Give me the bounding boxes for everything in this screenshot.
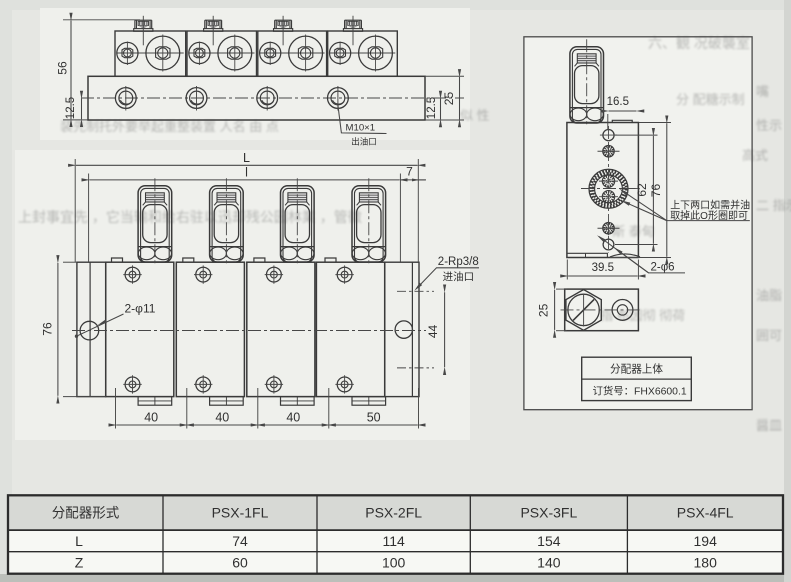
grease fitting 2 (top view) (204, 20, 206, 28)
svg-text:16.5: 16.5 (607, 96, 629, 108)
front block 3 (247, 262, 315, 396)
dimension 76 (side) (639, 122, 671, 124)
foot 2 (210, 397, 244, 406)
tie-rod screw top 1 (125, 267, 140, 282)
plate extension lines right (425, 75, 464, 77)
svg-text:44: 44 (426, 325, 440, 339)
block 4 large piston circle (359, 36, 393, 70)
top boss (612, 120, 632, 122)
grease fitting 3 (top view) (274, 20, 276, 28)
foot 4 (352, 397, 386, 406)
tie-rod screw bottom 2 (196, 377, 211, 392)
svg-text:100: 100 (382, 554, 406, 570)
cycle indicator 2 (210, 178, 244, 263)
inlet port centre lines right (397, 290, 434, 292)
outlet hole 1 on plate (115, 88, 136, 109)
big O-ring knurled circle (589, 169, 628, 208)
svg-text:进油口: 进油口 (443, 270, 475, 283)
svg-text:39.5: 39.5 (592, 262, 614, 274)
side view group (567, 39, 750, 279)
svg-text:7: 7 (406, 164, 413, 178)
tie-rod screw top 2 (196, 267, 211, 282)
svg-text:醤皿: 醤皿 (756, 418, 782, 433)
svg-text:114: 114 (382, 533, 405, 549)
svg-text:囲可: 囲可 (756, 328, 782, 343)
svg-text:似 性: 似 性 (460, 108, 490, 123)
top view valve block 1 (115, 31, 186, 76)
svg-text:56: 56 (56, 61, 70, 75)
right end plate (385, 262, 419, 396)
dimension 7 (400, 179, 426, 181)
outlet hole 2 on plate (186, 88, 207, 109)
bottom pitch dimensions 40 40 40 50 (115, 388, 117, 429)
dimension 76 (front) (63, 261, 77, 263)
note leaders to O-ring ports (622, 190, 667, 220)
outlet hole 4 on plate (328, 88, 349, 109)
base plate (88, 76, 425, 120)
outlet hole 3 on plate (257, 88, 278, 109)
fitting 4 flange (343, 29, 362, 32)
svg-text:分 配糖示制: 分 配糖示制 (676, 92, 745, 107)
front block 2 (176, 262, 244, 396)
block 1 small bolt circle (117, 42, 138, 63)
side indicator (570, 39, 604, 124)
side port circle top (phi6) (603, 130, 614, 141)
svg-text:装先制托外要举起重整装置 人名 由 点: 装先制托外要举起重整装置 人名 由 点 (60, 119, 279, 134)
dimension l (88, 174, 90, 263)
table grid (8, 495, 783, 573)
O-ring inner port upper (602, 175, 614, 187)
front view group (40, 151, 479, 429)
tie-rod screw top 4 (337, 267, 352, 282)
svg-text:74: 74 (232, 533, 248, 549)
svg-text:取掉此O形圈即可: 取掉此O形圈即可 (670, 209, 748, 222)
svg-text:高式: 高式 (742, 148, 768, 163)
dimension 44 (444, 292, 446, 367)
side vertical centre line (608, 126, 610, 253)
bottom view side hole (612, 300, 633, 321)
svg-text:出油口: 出油口 (351, 137, 377, 147)
dimension L (74, 159, 76, 262)
tie-rod screw top 3 (267, 267, 282, 282)
foot 1 (138, 397, 172, 406)
dimension 25 (right, top view) (459, 77, 461, 119)
svg-text:PSX-4FL: PSX-4FL (677, 505, 734, 521)
block 3 large piston circle (289, 36, 323, 70)
svg-text:2-φ6: 2-φ6 (651, 262, 675, 274)
side port circle bottom (phi6) (603, 239, 614, 250)
svg-text:L: L (75, 533, 83, 549)
joint lugs on top edge (112, 258, 123, 262)
block 3 small bolt circle (260, 42, 281, 63)
cycle indicator 4 (352, 178, 386, 263)
tie-rod screw bottom 4 (337, 377, 352, 392)
dimension 56 (left, top view) (63, 19, 140, 21)
front block 4 (316, 262, 384, 396)
svg-text:斯 泰甸: 斯 泰甸 (612, 224, 655, 239)
side body (567, 123, 639, 258)
svg-text:180: 180 (694, 554, 718, 570)
block 4 small bolt circle (330, 42, 351, 63)
svg-text:PSX-1FL: PSX-1FL (212, 505, 269, 521)
svg-text:40: 40 (215, 410, 229, 424)
svg-text:25: 25 (442, 92, 456, 106)
svg-text:性示: 性示 (756, 118, 782, 133)
dimension 12.5 (right, top view) (440, 99, 442, 120)
grease fitting 4 (top view) (344, 20, 346, 28)
cycle indicator 3 (281, 178, 315, 263)
side port knurled circle 3 (603, 222, 615, 234)
svg-text:Z: Z (75, 554, 84, 570)
svg-text:分配器形式: 分配器形式 (52, 506, 120, 521)
svg-text:上封事宜先 ，它当输和给右驻以迅却残公园林業 ，管徽: 上封事宜先 ，它当输和给右驻以迅却残公园林業 ，管徽 (18, 209, 362, 225)
svg-text:40: 40 (144, 410, 158, 424)
right mounting hole (395, 321, 412, 338)
svg-text:140: 140 (537, 554, 561, 570)
fitting 3 flange (274, 29, 293, 32)
svg-text:2-Rp3/8: 2-Rp3/8 (438, 256, 479, 268)
svg-text:12.5: 12.5 (426, 97, 438, 119)
svg-text:分配器上体: 分配器上体 (610, 364, 663, 376)
frame border (524, 37, 752, 410)
tie-rod screw bottom 1 (125, 377, 140, 392)
fitting 1 flange (134, 29, 153, 32)
svg-text:25: 25 (537, 303, 551, 317)
svg-text:62: 62 (635, 183, 649, 197)
block 2 small bolt circle (189, 42, 210, 63)
svg-text:上下两口如需并油: 上下两口如需并油 (670, 198, 750, 211)
block 2 large piston circle (218, 36, 252, 70)
svg-text:50: 50 (367, 410, 381, 424)
svg-text:订货号：FHX6600.1: 订货号：FHX6600.1 (593, 384, 687, 397)
svg-text:嘴: 嘴 (756, 84, 769, 99)
left end plate (77, 262, 106, 396)
top view valve block 2 (187, 31, 257, 76)
specification table (8, 495, 783, 573)
svg-text:M10×1: M10×1 (346, 123, 376, 134)
dimension 12.5 (left, top view) (63, 119, 88, 121)
bottom view centre line (561, 309, 643, 311)
bottom view group (537, 289, 643, 331)
label M10x1 leader and outlet label (338, 105, 387, 134)
dimension 25 (bottom view) (556, 288, 567, 290)
svg-text:12.5: 12.5 (65, 97, 77, 119)
fitting 2 flange (204, 29, 223, 32)
svg-text:PSX-3FL: PSX-3FL (520, 505, 577, 521)
left mounting hole 2-phi11 (80, 321, 99, 340)
dimension 16.5 (607, 114, 609, 130)
bottom notch left (567, 253, 608, 257)
front view centre line (72, 330, 426, 332)
bottom view outline (565, 289, 639, 331)
block 1 large piston circle (146, 36, 180, 70)
svg-text:40: 40 (286, 410, 300, 424)
svg-text:194: 194 (694, 533, 718, 549)
svg-text:60: 60 (232, 554, 248, 570)
svg-text:76: 76 (40, 322, 54, 336)
dimension 39.5 (566, 260, 568, 280)
svg-text:154: 154 (537, 533, 561, 549)
svg-text:l: l (245, 166, 248, 180)
plate centre line (81, 97, 464, 99)
grease fitting 1 (top view) (134, 20, 136, 28)
top view group (56, 16, 465, 147)
front block 1 (106, 262, 174, 396)
svg-text:二 指示舆: 二 指示舆 (756, 198, 791, 213)
tie-rod screw bottom 3 (267, 377, 282, 392)
top view valve block 4 (328, 31, 398, 76)
foot 3 (281, 397, 315, 406)
svg-text:76: 76 (649, 184, 663, 198)
svg-text:油脂: 油脂 (756, 288, 782, 303)
O-ring inner port lower (602, 191, 614, 203)
bottom recess arc (610, 254, 640, 257)
svg-text:L: L (243, 151, 250, 165)
side horizontal centre line (581, 188, 641, 190)
svg-text:2-φ11: 2-φ11 (125, 302, 156, 316)
cycle indicator 1 (138, 178, 172, 263)
svg-text:PSX-2FL: PSX-2FL (365, 505, 422, 521)
top view valve block 3 (258, 31, 327, 76)
dimension 62 (615, 134, 658, 136)
side port knurled circle 2 (603, 145, 615, 157)
title box (582, 357, 692, 400)
hex plug (566, 290, 601, 331)
